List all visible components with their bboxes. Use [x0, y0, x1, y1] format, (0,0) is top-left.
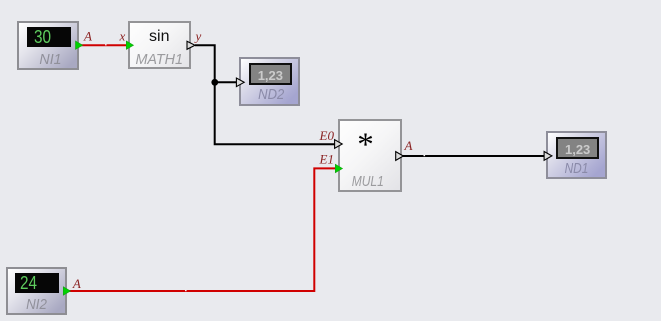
block MUL1 (multiplier) — [338, 119, 402, 192]
label NI2 — [8, 298, 64, 313]
input arrow MUL1.E1 (green) — [335, 164, 342, 172]
label NI1 — [20, 53, 80, 68]
output arrow NI2.A (green) — [63, 287, 70, 295]
block ND2 (numeric display) — [239, 57, 300, 106]
block NI1 (numeric input) — [17, 21, 79, 70]
svg-text:A: A — [83, 29, 92, 44]
svg-text:x: x — [119, 29, 126, 44]
block MATH1 (sin function) — [128, 21, 191, 69]
NI2 display value 24 — [15, 273, 60, 293]
output arrow MATH1.y (white) — [187, 41, 195, 49]
MATH1 function text sin — [128, 29, 191, 45]
label ND2 — [244, 88, 298, 103]
wire nick on lower red wire — [185, 290, 187, 291]
wire NI2.A to MUL1.E1 (red, corners at 314,291.3 and 314,168.4) — [67, 168, 336, 291]
svg-text:A: A — [72, 276, 81, 291]
MUL1 operator symbol * — [334, 129, 398, 162]
NI1 display value 30 — [27, 27, 72, 47]
label ND1 — [551, 162, 601, 177]
wire nick on red wire — [105, 44, 107, 45]
block ND1 (numeric display) — [546, 131, 607, 180]
input arrow ND2 (white) — [236, 78, 244, 87]
wire NI1.A to MATH1.x (red) — [79, 44, 128, 46]
block NI2 (numeric input) — [6, 267, 67, 315]
input arrow MUL1.E0 (white) — [335, 140, 343, 149]
input arrow MATH1.x (green) — [126, 41, 133, 49]
svg-text:y: y — [194, 29, 202, 44]
output arrow NI1.A (green) — [76, 41, 83, 49]
svg-text:E0: E0 — [319, 128, 335, 143]
wire MUL1.A to ND1 (black) — [402, 155, 546, 157]
wire branch junction to ND2 — [214, 81, 237, 83]
output arrow MUL1.A (white) — [396, 152, 404, 161]
svg-text:A: A — [404, 138, 413, 153]
ND1 display value 1,23 — [556, 137, 600, 159]
label MATH1 — [128, 53, 190, 68]
svg-text:E1: E1 — [319, 151, 334, 166]
input arrow ND1 (white) — [544, 152, 552, 161]
wire MATH1.y to MUL1.E0 (black, with corner at 215,45 and 215,144) — [195, 45, 336, 144]
junction dot — [211, 79, 218, 86]
label MUL1 — [342, 175, 395, 190]
ND2 display value 1,23 — [249, 63, 293, 85]
wire nick on output wire — [424, 155, 426, 156]
